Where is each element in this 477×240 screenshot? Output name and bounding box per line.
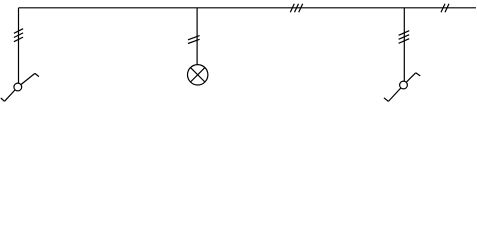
- conductor marks: 3 slashes on bus: [290, 4, 302, 13]
- switch S2 (two-way switch, bottom-right): [384, 73, 420, 102]
- switch S1 (two-way switch, bottom-left): [1, 73, 39, 101]
- wire: right drop: [403, 8, 405, 81]
- conductor marks: 2 slashes on middle drop: [188, 36, 200, 44]
- conductor marks: 3 slashes on right drop: [399, 31, 410, 44]
- wire: left drop: [18, 8, 20, 83]
- lamp E1 (circle with X): [188, 65, 208, 85]
- conductor marks: 3 slashes on left drop: [14, 29, 23, 42]
- wire: top feed bus: [19, 7, 477, 9]
- wire: middle drop: [196, 8, 198, 65]
- conductor marks: 2 slashes on bus: [441, 4, 449, 13]
